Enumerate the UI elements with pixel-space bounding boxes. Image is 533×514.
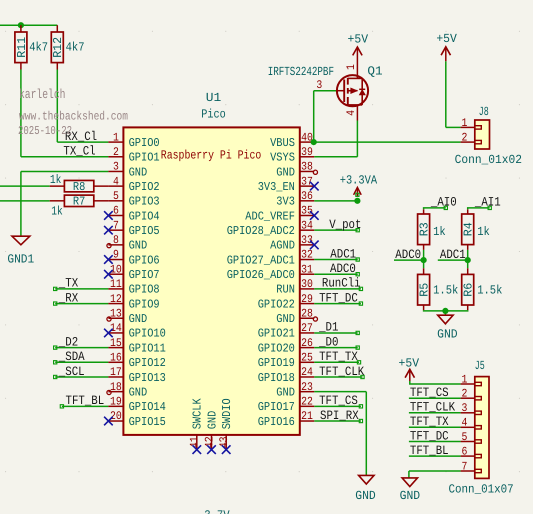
svg-text:_TX: _TX — [58, 276, 78, 291]
svg-text:GPIO18: GPIO18 — [258, 371, 295, 385]
svg-text:GPIO2: GPIO2 — [129, 180, 160, 194]
svg-text:19: 19 — [110, 396, 122, 409]
svg-text:GPIO7: GPIO7 — [129, 268, 160, 282]
U1 pin 23 GND — [300, 391, 315, 393]
U1 pin 17 GPIO13 — [108, 376, 123, 378]
svg-text:1k: 1k — [50, 173, 62, 187]
svg-text:12: 12 — [110, 293, 122, 306]
wire VBUS to J8 — [314, 141, 461, 143]
svg-text:37: 37 — [301, 175, 313, 188]
svg-text:1k: 1k — [477, 225, 490, 239]
svg-text:2: 2 — [462, 132, 468, 145]
U1 pin 37 3V3_EN — [300, 185, 315, 187]
svg-text:Conn_01x07: Conn_01x07 — [449, 482, 514, 496]
J5 pin 1 — [461, 383, 475, 385]
op-amp U1 body (Raspberry Pi Pico module) — [123, 127, 299, 435]
wire label ADC0 — [314, 273, 357, 275]
wire label _D2 — [55, 347, 108, 349]
wire ADC1 node — [467, 245, 469, 250]
wire label TFT_BL — [62, 405, 109, 407]
wire label TFT_DC — [314, 303, 361, 305]
wire label TFT_BL J5 — [409, 455, 461, 457]
U1 pin 6 GPIO4 — [108, 215, 123, 217]
svg-text:TFT_CLK: TFT_CLK — [410, 400, 455, 415]
J5 pin 2 — [461, 397, 475, 399]
svg-text:1: 1 — [113, 131, 119, 144]
U1 pin 41 SWCLK — [196, 435, 198, 450]
svg-text:_D1: _D1 — [318, 320, 338, 335]
svg-text:GPIO3: GPIO3 — [129, 195, 160, 209]
U1 pin 19 GPIO14 — [108, 405, 123, 407]
svg-text:39: 39 — [301, 146, 313, 159]
U1 pin 18 GND — [108, 391, 123, 393]
svg-text:www.thebackshed.com: www.thebackshed.com — [19, 109, 128, 123]
U1 pin 33 AGND — [300, 244, 315, 246]
svg-text:GPIO11: GPIO11 — [129, 341, 166, 355]
svg-text:TFT_TX: TFT_TX — [319, 349, 358, 364]
svg-text:27: 27 — [301, 322, 313, 335]
U1 pin 11 GPIO8 — [108, 288, 123, 290]
svg-text:3: 3 — [462, 402, 468, 415]
svg-text:2: 2 — [113, 146, 119, 159]
svg-text:33: 33 — [301, 234, 313, 247]
svg-text:GPIO21: GPIO21 — [258, 327, 295, 341]
ground GND1 — [12, 236, 30, 245]
svg-text:GND: GND — [129, 385, 148, 399]
U1 pin 12 GPIO9 — [108, 303, 123, 305]
svg-text:GPIO28_ADC2: GPIO28_ADC2 — [227, 224, 295, 238]
svg-text:22: 22 — [301, 396, 313, 409]
power +5V at Q1 — [353, 47, 362, 55]
svg-text:GPIO27_ADC1: GPIO27_ADC1 — [227, 253, 295, 267]
no-connect pin 20 — [104, 417, 113, 426]
svg-text:+5V: +5V — [436, 32, 457, 46]
svg-text:TFT_CS: TFT_CS — [319, 393, 358, 408]
U1 pin 29 GPIO22 — [300, 303, 315, 305]
no-connect pin 41 — [193, 445, 202, 454]
wire label TFT_TX — [314, 361, 359, 363]
J5 pin 5 — [461, 441, 475, 443]
svg-text:V_pot: V_pot — [329, 217, 361, 232]
U1 pin 34 GPIO28_ADC2 — [300, 229, 315, 231]
power +5V at J5 — [405, 369, 414, 377]
connector J5 — [475, 377, 489, 479]
svg-text:2025-10-22: 2025-10-22 — [18, 124, 72, 138]
svg-text:1.5k: 1.5k — [433, 283, 458, 297]
svg-text:GPIO16: GPIO16 — [258, 415, 295, 429]
svg-text:GND: GND — [129, 165, 148, 179]
svg-text:GPIO1: GPIO1 — [129, 151, 160, 165]
svg-text:30: 30 — [301, 278, 313, 291]
resistor R12 — [56, 25, 58, 32]
svg-text:TFT_DC: TFT_DC — [410, 428, 449, 443]
unconnected pin 13 circle — [107, 317, 111, 321]
wire label _D0 — [314, 347, 357, 349]
power +5V at J8 — [441, 47, 450, 55]
no-connect pin 14 — [104, 329, 113, 338]
svg-text:Conn_01x02: Conn_01x02 — [455, 153, 522, 167]
svg-text:R8: R8 — [73, 180, 85, 194]
svg-text:1: 1 — [462, 373, 468, 386]
wire label _RX — [55, 303, 108, 305]
wire label _SDA — [55, 361, 108, 363]
svg-text:_RX: _RX — [58, 290, 78, 305]
transistor Q1 IRFTS2242PBF — [338, 90, 345, 92]
svg-text:R6: R6 — [462, 283, 476, 297]
U1 pin 2 GPIO1 — [108, 156, 123, 158]
svg-text:_D2: _D2 — [58, 334, 78, 349]
svg-text:GPIO8: GPIO8 — [129, 283, 160, 297]
svg-text:IRFTS2242PBF: IRFTS2242PBF — [268, 65, 334, 79]
svg-text:RUN: RUN — [276, 283, 295, 297]
U1 pin 35 ADC_VREF — [300, 215, 315, 217]
U1 pin 25 GPIO19 — [300, 361, 315, 363]
wire label TFT_TX J5 — [409, 426, 461, 428]
svg-text:7: 7 — [462, 460, 468, 473]
svg-text:3.7V: 3.7V — [204, 509, 230, 514]
svg-text:+5V: +5V — [348, 32, 369, 46]
svg-text:8: 8 — [113, 234, 119, 247]
J5 pin 3 — [461, 412, 475, 414]
svg-text:5: 5 — [462, 431, 468, 444]
svg-text:GND: GND — [129, 312, 148, 326]
no-connect pin 7 — [104, 226, 113, 235]
U1 pin 21 GPIO16 — [300, 420, 315, 422]
svg-text:VBUS: VBUS — [270, 136, 295, 150]
svg-text:GPIO14: GPIO14 — [129, 400, 166, 414]
svg-text:R3: R3 — [418, 222, 432, 236]
svg-text:31: 31 — [301, 263, 313, 276]
svg-text:13: 13 — [110, 307, 122, 320]
unconnected pin 28 circle — [313, 317, 317, 321]
U1 pin 43 SWDIO — [225, 435, 227, 450]
wire label TFT_CLK J5 — [409, 412, 461, 414]
svg-text:R12: R12 — [51, 37, 65, 58]
resistor R6 — [462, 274, 474, 305]
svg-text:TFT_TX: TFT_TX — [410, 414, 449, 429]
svg-text:GND: GND — [400, 489, 421, 503]
resistor R8 — [50, 185, 65, 187]
U1 pin 40 VBUS — [300, 141, 315, 143]
svg-text:38: 38 — [301, 161, 313, 174]
wire +5V to J5 pin1 — [410, 381, 461, 384]
svg-text:28: 28 — [301, 307, 313, 320]
svg-text:U1: U1 — [206, 91, 222, 105]
power +3.3VA — [354, 187, 362, 194]
wire label RunCli — [314, 288, 361, 290]
svg-text:AGND: AGND — [270, 239, 295, 253]
svg-text:17: 17 — [110, 366, 122, 379]
wire label V_pot — [314, 229, 357, 231]
ground divider — [438, 315, 453, 324]
svg-text:GPIO13: GPIO13 — [129, 371, 166, 385]
no-connect pin 9 — [104, 255, 113, 264]
svg-text:36: 36 — [301, 190, 313, 203]
J5 pin 7 — [461, 470, 475, 472]
wire pin3 GND — [21, 170, 109, 172]
svg-text:3V3: 3V3 — [276, 195, 295, 209]
ground near J5 — [359, 475, 374, 484]
wire to R7 — [0, 200, 50, 202]
svg-text:GPIO19: GPIO19 — [258, 356, 295, 370]
resistor R3 — [418, 214, 430, 245]
svg-text:5: 5 — [113, 190, 119, 203]
J5 pin 4 — [461, 426, 475, 428]
junction VBUS — [311, 139, 317, 145]
svg-text:GND: GND — [276, 385, 295, 399]
svg-text:3: 3 — [316, 79, 322, 92]
svg-text:Q1: Q1 — [367, 65, 382, 79]
svg-text:R4: R4 — [462, 222, 476, 236]
resistor R5 — [418, 274, 430, 305]
svg-text:23: 23 — [301, 381, 313, 394]
U1 pin 4 GPIO2 — [108, 185, 123, 187]
resistor R11 — [20, 25, 22, 32]
resistor R7 — [50, 200, 65, 202]
svg-text:GND: GND — [129, 239, 148, 253]
wire to R8 — [0, 185, 50, 187]
U1 pin 42 GND — [211, 435, 213, 450]
svg-text:ADC0: ADC0 — [395, 247, 421, 262]
no-connect pin 10 — [104, 270, 113, 279]
svg-text:TX_Cl: TX_Cl — [63, 144, 95, 159]
svg-text:GND1: GND1 — [7, 253, 34, 267]
wire R3 top to label — [423, 209, 425, 214]
wire R4 top to label — [467, 209, 469, 214]
U1 pin 24 GPIO18 — [300, 376, 315, 378]
U1 pin 14 GPIO10 — [108, 332, 123, 334]
wire label TFT_CS J5 — [409, 397, 461, 399]
U1 pin 20 GPIO15 — [108, 420, 123, 422]
svg-text:GPIO5: GPIO5 — [129, 224, 160, 238]
svg-text:GPIO26_ADC0: GPIO26_ADC0 — [227, 268, 295, 282]
svg-text:34: 34 — [301, 219, 313, 232]
svg-text:_D0: _D0 — [318, 334, 338, 349]
U1 pin 15 GPIO11 — [108, 347, 123, 349]
no-connect pin 42 — [207, 445, 216, 454]
svg-text:1k: 1k — [51, 204, 63, 218]
svg-text:VSYS: VSYS — [270, 151, 295, 165]
U1 pin 13 GND — [108, 317, 123, 319]
svg-text:25: 25 — [301, 352, 313, 365]
svg-text:R5: R5 — [418, 283, 432, 297]
U1 pin 27 GPIO21 — [300, 332, 315, 334]
svg-text:+3.3VA: +3.3VA — [340, 173, 378, 187]
svg-text:J5: J5 — [475, 359, 485, 373]
svg-text:11: 11 — [110, 278, 122, 291]
resistor R4 — [462, 214, 474, 245]
svg-text:GPIO0: GPIO0 — [129, 136, 160, 150]
wire label _TX — [55, 288, 108, 290]
svg-text:GPIO4: GPIO4 — [129, 209, 160, 223]
U1 pin 9 GPIO6 — [108, 259, 123, 261]
svg-text:1k: 1k — [433, 225, 446, 239]
wire label TFT_CS — [314, 405, 361, 407]
U1 pin 39 VSYS — [300, 156, 315, 158]
U1 pin 10 GPIO7 — [108, 273, 123, 275]
U1 pin 32 GPIO27_ADC1 — [300, 259, 315, 261]
U1 pin 28 GND — [300, 317, 315, 319]
svg-text:1.5k: 1.5k — [477, 283, 502, 297]
svg-text:GND: GND — [355, 489, 376, 503]
svg-text:R7: R7 — [73, 195, 85, 209]
svg-text:16: 16 — [110, 352, 122, 365]
ground at J5 pin7 — [402, 478, 417, 487]
svg-text:9: 9 — [113, 249, 119, 262]
svg-text:R11: R11 — [15, 37, 29, 58]
svg-text:ADC1: ADC1 — [330, 246, 356, 261]
svg-text:SWDIO: SWDIO — [220, 398, 234, 429]
svg-text:TFT_BL: TFT_BL — [410, 443, 449, 458]
no-connect pin 43 — [222, 445, 231, 454]
no-connect pin 37 — [310, 182, 319, 191]
wire +5V to J8 pin1 — [445, 61, 447, 127]
U1 pin 22 GPIO17 — [300, 405, 315, 407]
wire label SPI_RX — [314, 420, 361, 422]
wire label _SCL — [55, 376, 108, 378]
junction ADC0 — [421, 257, 427, 263]
svg-text:7: 7 — [113, 219, 119, 232]
wire R11 to pin2 — [20, 63, 22, 70]
svg-text:4: 4 — [345, 110, 358, 116]
U1 pin 7 GPIO5 — [108, 229, 123, 231]
svg-text:GND: GND — [205, 411, 219, 430]
no-connect pin 6 — [104, 211, 113, 220]
svg-text:26: 26 — [301, 337, 313, 350]
junction 3V3 — [354, 198, 360, 204]
wire pin36 3V3 — [314, 200, 357, 202]
svg-text:3V3_EN: 3V3_EN — [258, 180, 295, 194]
svg-text:GPIO10: GPIO10 — [129, 327, 166, 341]
svg-text:32: 32 — [301, 249, 313, 262]
wire J5 pin7 to GND — [409, 470, 461, 472]
no-connect pin 35 — [310, 211, 319, 220]
svg-text:+5V: +5V — [399, 356, 420, 370]
svg-text:GPIO20: GPIO20 — [258, 341, 295, 355]
svg-text:GPIO12: GPIO12 — [129, 356, 166, 370]
wire divider bottoms to GND — [423, 305, 425, 310]
svg-text:RunCli: RunCli — [322, 276, 361, 291]
U1 pin 1 GPIO0 — [108, 141, 123, 143]
svg-text:18: 18 — [110, 381, 122, 394]
svg-text:4k7: 4k7 — [29, 41, 48, 55]
wire pin23 GND — [314, 391, 366, 393]
no-connect pin 33 — [310, 241, 319, 250]
junction divider GND — [442, 308, 448, 314]
svg-text:karlelch: karlelch — [19, 87, 66, 102]
svg-text:SPI_RX: SPI_RX — [320, 408, 359, 423]
U1 pin 16 GPIO12 — [108, 361, 123, 363]
unconnected pin 38 circle — [313, 170, 317, 174]
U1 pin 31 GPIO26_ADC0 — [300, 273, 315, 275]
wire label TFT_CLK — [314, 376, 362, 378]
wire label ADC1 — [314, 259, 357, 261]
svg-text:15: 15 — [110, 337, 122, 350]
wire Q1 source to VSYS — [356, 105, 358, 121]
wire R12 to pin1 — [56, 63, 58, 70]
wire label TFT_DC J5 — [409, 441, 461, 443]
svg-text:6: 6 — [462, 445, 468, 458]
svg-text:SWCLK: SWCLK — [191, 398, 205, 430]
svg-text:4: 4 — [462, 417, 468, 430]
svg-text:GPIO15: GPIO15 — [129, 415, 166, 429]
svg-text:Raspberry Pi Pico: Raspberry Pi Pico — [161, 148, 261, 162]
svg-text:21: 21 — [301, 410, 313, 423]
svg-text:1: 1 — [462, 117, 468, 130]
svg-text:TFT_CS: TFT_CS — [410, 385, 449, 400]
U1 pin 38 GND — [300, 170, 315, 172]
svg-text:6: 6 — [113, 205, 119, 218]
svg-text:4k7: 4k7 — [66, 41, 85, 55]
svg-text:J8: J8 — [479, 105, 489, 119]
U1 pin 3 GND — [108, 170, 123, 172]
svg-text:TFT_BL: TFT_BL — [66, 393, 105, 408]
wire Q1 gate — [313, 91, 315, 142]
svg-text:GND: GND — [276, 312, 295, 326]
svg-text:ADC0: ADC0 — [330, 261, 356, 276]
svg-text:3: 3 — [113, 161, 119, 174]
resistor R11 — [15, 32, 27, 63]
svg-text:2: 2 — [462, 388, 468, 401]
wire label _D1 — [314, 332, 357, 334]
svg-text:TFT_CLK: TFT_CLK — [319, 364, 364, 379]
U1 pin 30 RUN — [300, 288, 315, 290]
wire ADC0 node — [423, 245, 425, 250]
U1 pin 26 GPIO20 — [300, 347, 315, 349]
unconnected pin 18 circle — [107, 390, 111, 394]
wire 3V3 feed top-left — [0, 24, 57, 26]
svg-text:TFT_DC: TFT_DC — [319, 290, 358, 305]
svg-text:ADC1: ADC1 — [440, 247, 466, 262]
U1 pin 36 3V3 — [300, 200, 315, 202]
svg-text:ADC_VREF: ADC_VREF — [245, 209, 295, 223]
svg-text:GPIO22: GPIO22 — [258, 297, 295, 311]
U1 pin 5 GPIO3 — [108, 200, 123, 202]
svg-text:35: 35 — [301, 205, 313, 218]
svg-text:29: 29 — [301, 293, 313, 306]
U1 pin 8 GND — [108, 244, 123, 246]
junction ADC1 — [465, 257, 471, 263]
resistor R12 — [51, 32, 63, 63]
svg-text:1: 1 — [345, 64, 358, 70]
svg-text:GND: GND — [437, 327, 458, 341]
svg-text:_SCL: _SCL — [58, 364, 85, 379]
svg-text:24: 24 — [301, 366, 313, 379]
svg-text:GPIO6: GPIO6 — [129, 253, 160, 267]
unconnected pin 8 circle — [107, 244, 111, 248]
svg-text:GPIO17: GPIO17 — [258, 400, 295, 414]
svg-text:_SDA: _SDA — [58, 349, 85, 364]
junction at R11 top — [18, 22, 24, 28]
svg-text:GND: GND — [276, 165, 295, 179]
svg-text:GPIO9: GPIO9 — [129, 297, 160, 311]
svg-text:Pico: Pico — [201, 108, 226, 122]
connector J8 — [475, 120, 490, 149]
svg-text:4: 4 — [113, 175, 119, 188]
J5 pin 6 — [461, 455, 475, 457]
